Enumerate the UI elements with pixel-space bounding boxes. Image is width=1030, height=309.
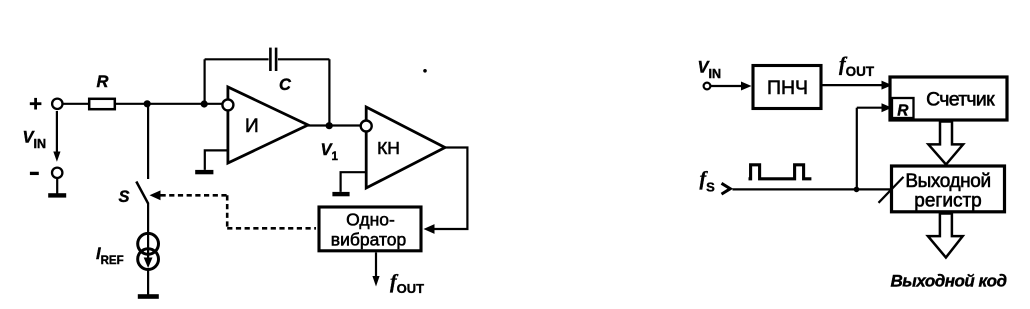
svg-text:Счетчик: Счетчик — [926, 89, 995, 111]
svg-text:Одно-: Одно- — [346, 210, 395, 230]
svg-text:КН: КН — [377, 138, 400, 158]
svg-text:Выходной: Выходной — [905, 171, 990, 192]
svg-text:ПНЧ: ПНЧ — [767, 77, 808, 99]
svg-text:R: R — [97, 73, 109, 91]
svg-text:Выходной код: Выходной код — [891, 272, 1007, 291]
svg-text:S: S — [119, 188, 130, 206]
svg-text:R: R — [897, 103, 909, 120]
svg-text:И: И — [245, 116, 259, 137]
svg-text:регистр: регистр — [914, 191, 981, 212]
svg-text:вибратор: вибратор — [331, 230, 406, 250]
svg-text:C: C — [279, 76, 292, 94]
